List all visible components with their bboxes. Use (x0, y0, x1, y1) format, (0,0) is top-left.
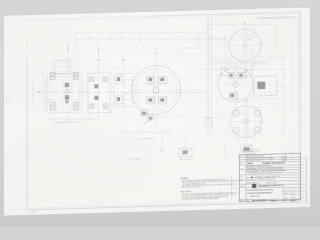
svg-text:5'-6: 5'-6 (62, 117, 65, 119)
svg-text:9'-1: 9'-1 (294, 72, 296, 75)
svg-text:NOTES:-: NOTES:- (180, 178, 189, 180)
svg-text:6'-3: 6'-3 (285, 77, 287, 80)
svg-text:4: 4 (120, 210, 121, 212)
svg-text:REF. DWGS:-: REF. DWGS:- (180, 191, 192, 193)
svg-text:LUBE COOLER: LUBE COOLER (178, 159, 192, 161)
svg-text:UNITS 1 & 2: UNITS 1 & 2 (250, 196, 260, 198)
svg-text:4: 4 (122, 56, 123, 58)
svg-text:7'-2: 7'-2 (140, 130, 143, 132)
svg-text:K-4 1059: K-4 1059 (30, 212, 37, 214)
